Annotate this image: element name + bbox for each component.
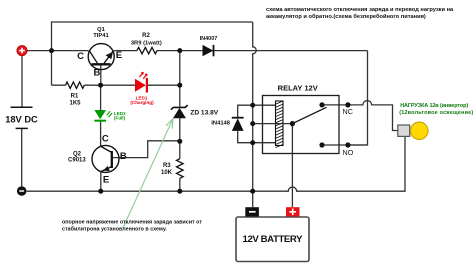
- svg-text:Q1: Q1: [97, 27, 106, 33]
- svg-text:(Full): (Full): [114, 116, 126, 121]
- svg-text:E: E: [116, 50, 122, 61]
- wire battery plus vertical: [291, 124, 293, 208]
- wire NO contact stub: [322, 144, 368, 146]
- svg-text:аккамулятор и обратно.(схема б: аккамулятор и обратно.(схема безперебойн…: [266, 13, 426, 20]
- svg-text:3R9 (1watt): 3R9 (1watt): [131, 40, 162, 46]
- wire NC contact stub: [322, 104, 348, 106]
- plus terminal circle: [17, 46, 27, 56]
- minus terminal circle: [17, 186, 27, 196]
- svg-text:C: C: [77, 51, 84, 62]
- wire Q1 base lead: [100, 65, 102, 85]
- battery 12V box: [236, 217, 309, 262]
- svg-text:RELAY 12V: RELAY 12V: [278, 83, 318, 92]
- svg-text:C9013: C9013: [68, 158, 86, 164]
- svg-text:стабилитрона установленного в: стабилитрона установленного в схему.: [62, 225, 167, 232]
- wire R1/LED1 line y=85.2: [52, 84, 180, 86]
- svg-text:C: C: [102, 134, 109, 145]
- svg-text:NC: NC: [343, 107, 353, 116]
- lamp socket: [398, 125, 410, 136]
- wire relay coil feed vertical with hop: [253, 22, 257, 207]
- lamp bulb: [411, 122, 428, 139]
- LED LED2 (Full): [94, 110, 126, 121]
- 18V DC source plates: [5, 107, 38, 128]
- svg-text:IN4007: IN4007: [200, 36, 218, 42]
- wire Q2 base to zener node: [113, 141, 180, 158]
- svg-text:NO: NO: [343, 148, 354, 157]
- svg-text:B: B: [93, 68, 100, 79]
- battery minus terminal: [245, 207, 259, 216]
- svg-text:(Charging): (Charging): [130, 100, 154, 105]
- relay box: [263, 96, 340, 154]
- svg-text:(12вольтовое освещение): (12вольтовое освещение): [399, 110, 473, 116]
- wire IN4148 stubs: [238, 105, 253, 143]
- svg-text:E: E: [103, 174, 109, 185]
- svg-text:схема автоматического отключен: схема автоматического отключения заряда …: [266, 7, 454, 13]
- junction: top loop / main rail: [49, 48, 54, 53]
- junction: relay coil bottom terminal: [250, 140, 255, 145]
- svg-text:R2: R2: [142, 33, 150, 39]
- junction: LED1 / zener branch: [177, 83, 182, 88]
- wire relay common through coil: [253, 123, 293, 125]
- svg-text:10K: 10K: [161, 170, 173, 176]
- wire right vertical rail to NO: [348, 51, 368, 145]
- wire Q2 emitter lead: [100, 172, 102, 192]
- transistor Q2 C9013: [68, 134, 127, 186]
- wire LED2 branch: [100, 85, 102, 146]
- junction: relay armature pivot: [290, 121, 295, 126]
- junction: relay coil top terminal: [250, 103, 255, 108]
- svg-text:Q2: Q2: [73, 152, 82, 158]
- junction: relay NO contact: [319, 142, 324, 147]
- diode IN4148: [211, 118, 243, 131]
- svg-text:НАГРУЗКА 12в (инвертор): НАГРУЗКА 12в (инвертор): [400, 103, 468, 109]
- junction: R3 / bottom rail: [177, 189, 182, 194]
- junction: NC outer terminal: [345, 102, 350, 107]
- svg-text:1K5: 1K5: [69, 100, 81, 106]
- wire relay coil connections: [253, 105, 276, 143]
- zener diode ZD 13.8V: [171, 105, 219, 118]
- svg-text:12V BATTERY: 12V BATTERY: [243, 234, 304, 245]
- note arrow to zener: [123, 119, 173, 229]
- junction: Q1 base / R1-LED1 line: [98, 83, 103, 88]
- wire main rail y=50.6: [27, 50, 368, 52]
- wire zener branch x=179.8: [179, 51, 181, 192]
- wire bottom rail with hop over battery plus: [27, 136, 405, 191]
- svg-text:опорное напряжение отключения: опорное напряжение отключения заряда зав…: [62, 220, 202, 226]
- svg-text:IN4148: IN4148: [211, 120, 230, 126]
- svg-text:18V DC: 18V DC: [5, 114, 38, 124]
- wire NC to lamp with hop: [348, 101, 398, 131]
- junction: relay NC contact: [319, 102, 324, 107]
- transistor Q1 TIP41: [77, 27, 122, 79]
- svg-text:ZD 13.8V: ZD 13.8V: [190, 109, 218, 116]
- resistor R3: [177, 159, 184, 179]
- svg-text:R3: R3: [163, 163, 171, 169]
- junction: coil return / bottom rail: [250, 189, 255, 194]
- svg-text:R1: R1: [71, 94, 79, 100]
- relay coil (hatched): [276, 101, 284, 148]
- junction: Q2 emitter / bottom rail: [98, 189, 103, 194]
- LED LED1 (Charging): [130, 72, 154, 105]
- wire top loop: from left vertical to relay coil feed, with hop over main rail: [52, 22, 253, 85]
- relay switch blade: [292, 107, 326, 123]
- junction: zener branch / main rail: [177, 48, 182, 53]
- wire 18V source verticals: [21, 56, 23, 187]
- junction: NO outer terminal: [345, 142, 350, 147]
- junction: relay common feed terminal: [250, 121, 255, 126]
- svg-text:TIP41: TIP41: [93, 33, 109, 39]
- junction: Q2 base wire / zener-R3 node: [177, 139, 182, 144]
- diode IN4007: [200, 36, 218, 57]
- battery plus terminal: [286, 207, 300, 216]
- resistor R1: [66, 82, 85, 88]
- resistor R2: [137, 47, 157, 53]
- svg-text:B: B: [120, 151, 127, 162]
